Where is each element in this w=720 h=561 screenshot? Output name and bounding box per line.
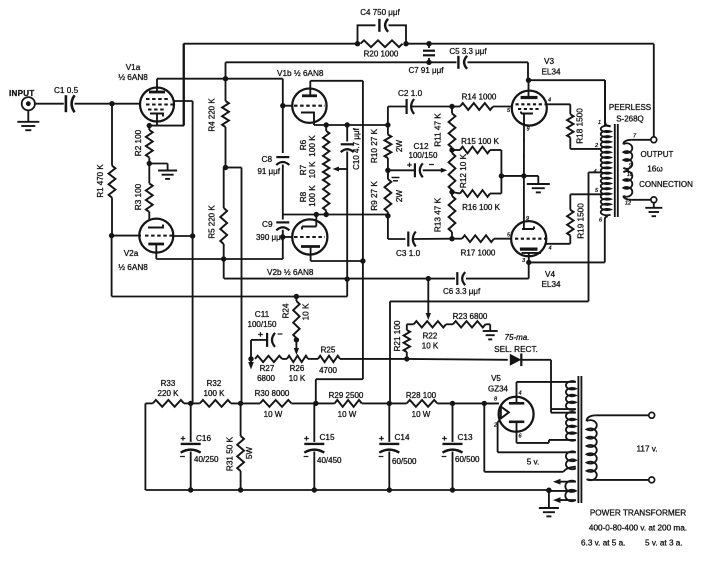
- wire bias tap: [426, 276, 431, 320]
- label S-268Q: [616, 115, 644, 124]
- wire rail to V5: [484, 402, 499, 404]
- svg-text:V1a: V1a: [126, 63, 141, 72]
- label R26 value: [289, 374, 306, 383]
- svg-text:EL34: EL34: [541, 68, 561, 77]
- svg-text:9: 9: [629, 163, 632, 169]
- OPT secondary winding: [623, 140, 632, 200]
- wire V1a screen drop: [174, 101, 193, 403]
- svg-text:POWER TRANSFORMER: POWER TRANSFORMER: [590, 509, 686, 518]
- label 75ma: [505, 333, 530, 342]
- svg-text:C7 91 μμf: C7 91 μμf: [408, 66, 444, 75]
- svg-text:R33: R33: [161, 379, 176, 388]
- label R22: [423, 332, 438, 341]
- svg-text:½ 6AN8: ½ 6AN8: [118, 73, 148, 82]
- capacitor C2: [407, 99, 415, 114]
- svg-text:12: 12: [625, 201, 631, 207]
- PT HV bottom: [549, 439, 576, 441]
- svg-text:R30 8000: R30 8000: [255, 389, 290, 398]
- node R2 R3: [147, 161, 152, 166]
- pin V5 2: [493, 423, 497, 429]
- svg-text:EL34: EL34: [541, 280, 561, 289]
- svg-text:–: –: [378, 451, 383, 461]
- resistor R31: [237, 403, 244, 490]
- PT 5v winding: [564, 451, 576, 471]
- svg-text:SEL. RECT.: SEL. RECT.: [494, 345, 538, 354]
- pin V3 cathode: [527, 127, 530, 133]
- wire R15 R16 bracket: [500, 150, 502, 194]
- node R4 top: [223, 76, 228, 81]
- resistor R5: [220, 168, 227, 260]
- svg-text:5 v. at 3 a.: 5 v. at 3 a.: [645, 539, 683, 548]
- capacitor C16: [181, 403, 201, 490]
- wire V1b grid left: [283, 105, 292, 107]
- wire R22 R23: [446, 323, 453, 325]
- pin V3 grid: [507, 108, 511, 114]
- wire C8 column top: [282, 79, 284, 153]
- wire V5 plate2 to HV: [517, 440, 549, 443]
- svg-text:100/150: 100/150: [409, 151, 438, 160]
- resistor R4: [222, 79, 229, 168]
- label C14 value: [392, 457, 417, 466]
- ground output: [645, 203, 662, 217]
- resistor R32: [200, 400, 231, 407]
- capacitor C15: [304, 403, 324, 490]
- svg-text:6.3 v. at 5 a.: 6.3 v. at 5 a.: [581, 539, 625, 548]
- label C15 minus: [303, 451, 308, 461]
- node V1b grid: [280, 103, 285, 108]
- wire V2a grid left: [112, 235, 141, 237]
- svg-text:R16 100 K: R16 100 K: [462, 203, 500, 212]
- pot R26 wiper: [294, 340, 299, 355]
- resistor R6: [323, 125, 329, 158]
- node C7 bottom: [426, 60, 431, 65]
- wire V3 cathode down: [523, 126, 525, 176]
- label GZ34: [488, 385, 509, 394]
- label R10: [370, 128, 404, 163]
- svg-text:R1 470 K: R1 470 K: [96, 164, 105, 198]
- label C14 plus: [379, 433, 384, 443]
- node R9 bottom: [385, 213, 390, 218]
- resistor R7 potentiometer: [323, 158, 329, 182]
- label C11 minus: [277, 329, 282, 339]
- svg-text:C8: C8: [262, 155, 273, 164]
- pin OPT 6: [599, 218, 603, 224]
- svg-text:100 K: 100 K: [204, 389, 226, 398]
- wire V2b plate row: [311, 255, 363, 261]
- pin V5 4: [519, 391, 522, 397]
- resistor R8: [323, 182, 329, 215]
- OPT CT bracket: [589, 172, 602, 301]
- svg-text:–: –: [441, 451, 446, 461]
- label R11: [434, 113, 443, 147]
- tube V5 envelope: [499, 397, 534, 432]
- capacitor C8: [276, 157, 289, 165]
- label R30: [255, 389, 290, 419]
- capacitor C13: [443, 403, 463, 490]
- svg-text:R32: R32: [207, 379, 222, 388]
- label R16: [462, 203, 500, 212]
- ground arrow R27: [248, 359, 254, 370]
- node R13 bottom: [449, 236, 454, 241]
- label R23: [453, 312, 488, 321]
- node V2b cathode top: [314, 212, 319, 217]
- label 16ohm: [647, 165, 663, 174]
- wire C11 left: [251, 340, 267, 359]
- wire V1b plate over: [310, 81, 363, 379]
- label V1a: [126, 63, 141, 72]
- label C16 minus: [180, 451, 185, 461]
- svg-text:C12: C12: [413, 142, 428, 151]
- label C1: [54, 86, 79, 95]
- label R12: [459, 153, 468, 188]
- svg-text:2: 2: [594, 143, 598, 149]
- svg-text:R29 2500: R29 2500: [329, 391, 364, 400]
- wire V5 plate1 to HV: [517, 381, 576, 383]
- pin V4 plate: [522, 258, 526, 264]
- pot R7 wiper: [333, 167, 348, 172]
- label C8: [262, 155, 273, 164]
- tube V4 envelope: [511, 221, 546, 256]
- label R28: [406, 391, 437, 419]
- label R27: [260, 364, 275, 373]
- node R2 top: [147, 123, 152, 128]
- label V5: [491, 374, 501, 383]
- capacitor C11: [267, 333, 275, 347]
- resistor R23: [453, 321, 486, 327]
- wire C10 top: [346, 125, 348, 142]
- resistor R16: [452, 190, 501, 197]
- wire V4 screen: [546, 236, 570, 244]
- svg-text:R6: R6: [299, 139, 308, 150]
- pin V4 screen: [549, 246, 552, 252]
- resistor R10: [385, 125, 392, 170]
- wire R33 left leg: [144, 403, 146, 490]
- PT CT stub: [549, 490, 576, 492]
- node R27 left: [248, 356, 253, 361]
- svg-text:10 K: 10 K: [422, 342, 439, 351]
- label R33: [158, 379, 180, 398]
- tube V3 plate: [521, 80, 538, 97]
- tube V3 cathode: [521, 112, 533, 126]
- label C11 plus: [258, 329, 263, 339]
- node R5 bottom: [221, 256, 226, 261]
- svg-text:R12 10 K: R12 10 K: [459, 153, 468, 188]
- label V1b: [277, 69, 324, 78]
- svg-text:R17 1000: R17 1000: [461, 249, 496, 258]
- pin V3 screen: [548, 98, 551, 104]
- label C13 value: [455, 455, 480, 464]
- node V2b grid: [280, 234, 285, 239]
- node rail V5: [482, 401, 487, 406]
- pin V4 grid: [507, 233, 511, 239]
- label R22 value: [422, 342, 439, 351]
- svg-text:100/150: 100/150: [248, 320, 277, 329]
- svg-text:–: –: [303, 451, 308, 461]
- pin OPT 7: [633, 134, 637, 140]
- wire V5 fil to 5v: [498, 421, 576, 453]
- ground V3 V4 cathodes: [527, 176, 550, 193]
- label R19: [577, 203, 586, 239]
- label V1a type: [118, 73, 148, 82]
- wire V1a plate row to C5: [226, 62, 529, 80]
- label 117v: [636, 445, 657, 454]
- label C9 value: [256, 233, 284, 242]
- label R13: [434, 197, 443, 232]
- svg-text:½ 6AN8: ½ 6AN8: [118, 263, 148, 272]
- svg-text:V3: V3: [544, 57, 554, 66]
- heater arrow top: [553, 479, 576, 485]
- svg-text:2: 2: [493, 423, 497, 429]
- label C6: [443, 287, 481, 296]
- wire V1a cathode row: [149, 44, 184, 126]
- wire C3 to R13: [413, 238, 452, 240]
- tube V3 envelope: [512, 91, 547, 126]
- resistor R26 potentiometer: [282, 356, 308, 362]
- svg-text:100 K: 100 K: [308, 135, 317, 157]
- label V3: [544, 57, 554, 66]
- capacitor C3: [408, 232, 416, 247]
- label C15 plus: [304, 433, 309, 443]
- tube V1b plate: [302, 81, 317, 96]
- resistor R20: [361, 40, 403, 47]
- PT core: [578, 376, 581, 503]
- node V2a grid: [109, 233, 114, 238]
- svg-text:R20 1000: R20 1000: [364, 50, 399, 59]
- wire R9 to C3: [388, 216, 406, 239]
- node C11 right: [294, 337, 299, 342]
- label SEL RECT: [494, 345, 538, 354]
- svg-text:+: +: [304, 433, 309, 443]
- svg-text:10 K: 10 K: [308, 161, 317, 178]
- label R25 value: [319, 366, 337, 375]
- svg-text:+: +: [442, 433, 447, 443]
- label C16 value: [194, 455, 219, 464]
- svg-text:PEERLESS: PEERLESS: [609, 103, 651, 112]
- resistor R21: [404, 324, 414, 359]
- wire V2a plate row: [156, 237, 282, 259]
- svg-text:9: 9: [526, 216, 529, 222]
- wire R5 bottom L: [223, 259, 225, 279]
- wire OPT sec bottom: [632, 199, 651, 201]
- terminal 117v bottom: [649, 477, 655, 483]
- tube V2b grid: [294, 236, 325, 238]
- resistor R27: [255, 356, 282, 362]
- svg-text:V1b ½ 6AN8: V1b ½ 6AN8: [277, 69, 324, 78]
- svg-text:+: +: [181, 433, 186, 443]
- resistor R25: [318, 356, 340, 362]
- node rail R30 R29: [313, 401, 318, 406]
- label INPUT: [9, 89, 35, 98]
- node V2a right: [190, 233, 195, 238]
- capacitor C4: [379, 19, 388, 32]
- svg-text:R31 50 K: R31 50 K: [226, 436, 235, 471]
- label R15: [461, 137, 499, 146]
- resistor R24: [293, 297, 299, 340]
- node cathode gnd left: [499, 173, 504, 178]
- OPT core: [615, 124, 618, 217]
- svg-text:R5 220 K: R5 220 K: [208, 205, 217, 239]
- label C13: [458, 433, 473, 442]
- tube V2b plate: [301, 247, 320, 255]
- label R31: [226, 436, 255, 471]
- label R8: [299, 185, 317, 207]
- svg-text:R2 100: R2 100: [134, 129, 143, 156]
- tube V5 filament: [501, 406, 509, 420]
- label C11: [255, 310, 270, 319]
- wire R4R5 jog: [226, 168, 242, 404]
- label C13 minus: [441, 451, 446, 461]
- resistor R17: [452, 235, 511, 242]
- label R14: [462, 93, 497, 102]
- label C12 value: [409, 151, 438, 160]
- wire C1 to grid node: [75, 103, 140, 105]
- svg-text:R19 1500: R19 1500: [577, 203, 586, 239]
- label R25: [321, 346, 336, 355]
- label C12: [413, 142, 428, 151]
- tube V4 grids: [515, 238, 546, 240]
- svg-text:10 W: 10 W: [338, 410, 357, 419]
- label C7: [408, 66, 444, 75]
- label R26: [290, 364, 305, 373]
- ground V1a divider: [149, 164, 177, 179]
- svg-text:60/500: 60/500: [392, 457, 417, 466]
- wire V2b grid left: [283, 236, 292, 238]
- svg-text:C5 3.3 μμf: C5 3.3 μμf: [449, 47, 487, 56]
- pin OPT 4: [594, 169, 597, 175]
- label PT spec 1: [589, 524, 687, 533]
- node C10 bottom: [345, 276, 350, 281]
- wire R25 to diode: [340, 358, 508, 361]
- tube V2b cathode: [302, 215, 316, 230]
- pin OPT 12: [625, 201, 631, 207]
- wire B+ row: [390, 301, 589, 403]
- svg-text:R11 47 K: R11 47 K: [434, 113, 443, 147]
- svg-text:V2b ½ 6AN8: V2b ½ 6AN8: [267, 268, 314, 277]
- label R20: [364, 50, 399, 59]
- wire C4 branch: [358, 25, 407, 43]
- svg-text:V2a: V2a: [124, 249, 139, 258]
- wire top feedback rail: [184, 44, 654, 138]
- resistor R3: [146, 164, 153, 221]
- input jack J1: [22, 97, 35, 110]
- node rail C13: [450, 401, 455, 406]
- pin OPT 1: [598, 120, 601, 126]
- capacitor C9: [276, 222, 289, 230]
- node R10 top: [385, 122, 390, 127]
- tube V4 plate: [520, 249, 541, 262]
- pin OPT 10: [627, 172, 633, 178]
- terminal 117v top: [649, 412, 655, 418]
- node R31 top: [238, 401, 243, 406]
- label C14 minus: [378, 451, 383, 461]
- svg-text:40/250: 40/250: [194, 455, 219, 464]
- label CONNECTION: [639, 180, 693, 189]
- output terminal top: [651, 137, 657, 143]
- resistor R30: [260, 400, 291, 407]
- label R6: [299, 135, 317, 157]
- node ground rail C13: [450, 487, 455, 492]
- node R4 R5: [223, 165, 228, 170]
- label R27 value: [257, 374, 275, 383]
- svg-text:C13: C13: [458, 433, 473, 442]
- node V3 cathode: [521, 173, 526, 178]
- svg-text:2W: 2W: [395, 190, 404, 203]
- label C3: [396, 249, 421, 258]
- resistor R15: [452, 147, 501, 154]
- node R20 right: [403, 41, 408, 46]
- wire R8 R9 row: [283, 214, 388, 216]
- svg-text:C6 3.3 μμf: C6 3.3 μμf: [443, 287, 481, 296]
- svg-text:V5: V5: [491, 374, 501, 383]
- capacitor C14: [379, 403, 399, 490]
- pin OPT 5: [595, 188, 599, 194]
- wire C9 to corner: [282, 230, 284, 237]
- tube V5 plate2: [509, 422, 524, 443]
- svg-text:+: +: [379, 433, 384, 443]
- svg-text:R23 6800: R23 6800: [453, 312, 488, 321]
- pin OPT 2: [594, 143, 598, 149]
- svg-text:400-0-80-400 v. at 200 ma.: 400-0-80-400 v. at 200 ma.: [589, 524, 687, 533]
- svg-text:C16: C16: [196, 434, 211, 443]
- svg-text:C10 4.7 μμf: C10 4.7 μμf: [352, 127, 361, 169]
- pot R12 wiper: [423, 168, 448, 173]
- capacitor C12: [415, 163, 423, 177]
- svg-text:10 K: 10 K: [289, 374, 306, 383]
- label 5v: [527, 458, 540, 467]
- label V2b: [267, 268, 314, 277]
- svg-text:R10 27 K: R10 27 K: [370, 128, 379, 163]
- svg-text:–: –: [180, 451, 185, 461]
- wire V4 grid: [510, 238, 513, 240]
- label C16: [196, 434, 211, 443]
- resistor R18: [567, 114, 573, 149]
- svg-text:R26: R26: [290, 364, 305, 373]
- node V4 plate: [526, 260, 531, 265]
- svg-text:6800: 6800: [257, 374, 275, 383]
- OPT primary winding: [601, 80, 611, 215]
- svg-text:CONNECTION: CONNECTION: [639, 180, 693, 189]
- tube V1b grid: [294, 105, 325, 107]
- label V4: [545, 270, 555, 279]
- svg-text:V4: V4: [545, 270, 555, 279]
- resistor R11: [449, 107, 456, 151]
- svg-text:4: 4: [549, 246, 552, 252]
- wire V3 plate to OPT: [529, 80, 606, 126]
- svg-text:C14: C14: [395, 433, 410, 442]
- wire C2 row: [388, 107, 452, 126]
- node R11 bottom: [449, 147, 454, 152]
- svg-text:4: 4: [548, 98, 551, 104]
- resistor R22 potentiometer: [414, 321, 446, 327]
- node ground rail C14: [387, 487, 392, 492]
- wire V1a plate to C8 node: [157, 78, 283, 80]
- wire OPT sec top: [632, 139, 651, 141]
- label C9: [262, 220, 273, 229]
- label R9: [370, 181, 404, 211]
- svg-text:S-268Q: S-268Q: [616, 115, 644, 124]
- svg-text:+: +: [407, 160, 412, 170]
- svg-text:16ω: 16ω: [647, 165, 663, 174]
- node C7 top: [426, 41, 431, 46]
- label R4: [208, 98, 217, 132]
- svg-text:C4 750 μμf: C4 750 μμf: [360, 8, 400, 17]
- wire bottom rail: [145, 489, 549, 491]
- svg-text:R24: R24: [282, 303, 291, 318]
- tube V3 grids: [516, 104, 547, 109]
- svg-text:C3 1.0: C3 1.0: [396, 249, 421, 258]
- wire C10 bottom: [346, 152, 348, 280]
- svg-text:100 K: 100 K: [308, 185, 317, 207]
